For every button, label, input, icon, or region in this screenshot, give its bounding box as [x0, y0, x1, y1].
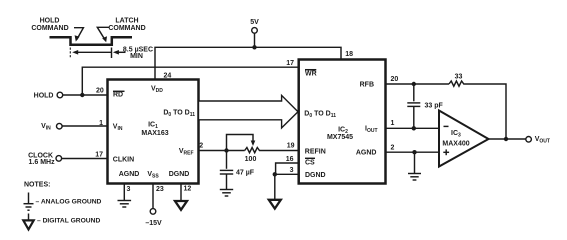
svg-text:23: 23	[156, 186, 164, 193]
svg-text:– DIGITAL GROUND: – DIGITAL GROUND	[37, 217, 100, 224]
svg-text:LATCH: LATCH	[115, 18, 138, 25]
svg-text:2: 2	[199, 143, 203, 150]
svg-text:17: 17	[95, 152, 103, 159]
svg-text:WR: WR	[305, 70, 317, 77]
svg-text:–15V: –15V	[145, 220, 162, 227]
svg-text:17: 17	[286, 60, 294, 67]
svg-text:1: 1	[391, 120, 395, 127]
svg-text:MIN: MIN	[130, 53, 143, 60]
svg-text:REFIN: REFIN	[305, 149, 326, 156]
svg-text:HOLD: HOLD	[40, 18, 60, 25]
svg-text:33 pF: 33 pF	[425, 103, 444, 110]
svg-text:47 µF: 47 µF	[236, 170, 255, 177]
svg-text:MX7545: MX7545	[327, 134, 353, 141]
svg-text:NOTES:: NOTES:	[24, 182, 50, 189]
svg-text:1: 1	[99, 120, 103, 127]
svg-text:MAX163: MAX163	[141, 130, 168, 137]
svg-text:20: 20	[96, 88, 104, 95]
svg-text:AGND: AGND	[119, 171, 140, 178]
svg-text:AGND: AGND	[356, 150, 377, 157]
svg-text:100: 100	[245, 156, 257, 163]
svg-text:20: 20	[391, 76, 399, 83]
svg-text:19: 19	[287, 143, 295, 150]
svg-text:DGND: DGND	[305, 172, 326, 179]
svg-text:CS: CS	[305, 160, 315, 167]
svg-text:DGND: DGND	[169, 171, 190, 178]
svg-text:3: 3	[290, 167, 294, 174]
svg-text:– ANALOG GROUND: – ANALOG GROUND	[36, 199, 102, 206]
svg-text:RFB: RFB	[360, 82, 374, 89]
svg-text:2: 2	[391, 145, 395, 152]
svg-text:16: 16	[286, 156, 294, 163]
svg-text:HOLD: HOLD	[34, 93, 54, 100]
svg-text:5V: 5V	[250, 19, 259, 26]
svg-text:18: 18	[345, 51, 353, 58]
svg-text:12: 12	[184, 186, 192, 193]
svg-text:COMMAND: COMMAND	[31, 25, 68, 32]
svg-text:33: 33	[455, 74, 463, 81]
svg-text:1.6 MHz: 1.6 MHz	[29, 159, 56, 166]
svg-text:CLKIN: CLKIN	[113, 157, 134, 164]
svg-text:COMMAND: COMMAND	[108, 25, 145, 32]
svg-text:MAX400: MAX400	[442, 141, 469, 148]
svg-text:3: 3	[127, 186, 131, 193]
svg-text:RD: RD	[113, 92, 123, 99]
